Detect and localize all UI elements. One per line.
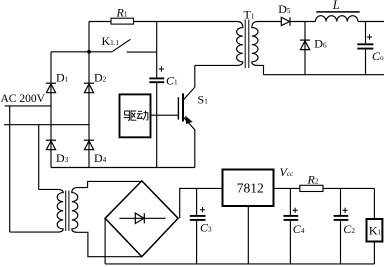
svg-text:Co: Co	[372, 49, 384, 63]
svg-text:AC 200V: AC 200V	[1, 93, 46, 105]
svg-text:C3: C3	[200, 220, 212, 234]
svg-text:D6: D6	[314, 37, 327, 51]
svg-text:D5: D5	[278, 2, 291, 16]
svg-text:D1: D1	[56, 70, 69, 84]
svg-text:C1: C1	[166, 74, 178, 88]
svg-text:R2: R2	[307, 173, 319, 187]
svg-text:R1: R1	[116, 6, 128, 20]
svg-text:D2: D2	[94, 70, 107, 84]
svg-text:L: L	[332, 0, 340, 12]
svg-text:D4: D4	[94, 151, 107, 165]
svg-text:Vcc: Vcc	[280, 165, 295, 179]
svg-text:T1: T1	[244, 8, 255, 22]
svg-text:C2: C2	[343, 222, 355, 236]
svg-text:D3: D3	[56, 151, 69, 165]
svg-text:7812: 7812	[237, 181, 264, 196]
svg-text:C4: C4	[293, 222, 305, 236]
svg-text:S1: S1	[198, 92, 209, 106]
svg-text:K1.1: K1.1	[102, 34, 120, 48]
